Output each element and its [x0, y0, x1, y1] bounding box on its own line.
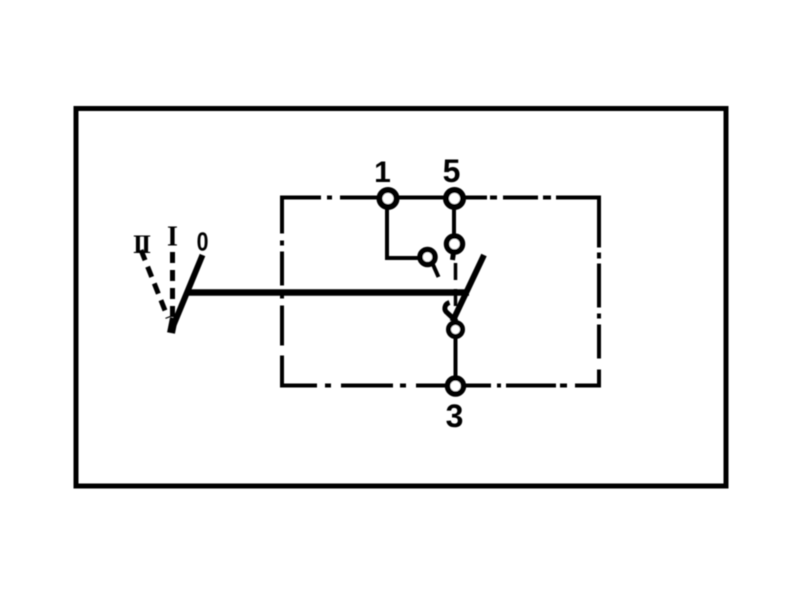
svg-text:I: I — [167, 222, 178, 253]
lever position I (dashed vertical) — [170, 252, 175, 321]
switch blade (solid, position 0) — [445, 255, 484, 322]
alternate blade position (dashed line from contact B to pivot) — [454, 263, 458, 323]
lever position II (dashed diagonal) — [141, 250, 168, 318]
pivot contact circle — [449, 323, 463, 337]
svg-text:1: 1 — [374, 156, 391, 189]
fixed contact A (from terminal 1) — [420, 250, 439, 278]
wire from pivot to terminal 3 — [454, 337, 458, 377]
terminal 1 (circle on enclosure top edge) — [380, 190, 397, 207]
terminal 3 (circle on enclosure bottom edge) — [448, 378, 464, 394]
mechanical linkage bar — [186, 289, 469, 296]
svg-text:II: II — [133, 230, 151, 259]
svg-text:3: 3 — [446, 398, 464, 434]
wire from terminal 1 down and right to fixed contact A — [387, 208, 419, 258]
fixed contact B (from terminal 5) — [447, 236, 463, 260]
wire from terminal 5 down to fixed contact B — [452, 208, 456, 234]
svg-text:0: 0 — [197, 228, 209, 258]
enclosure boundary (dash-dot box) — [280, 196, 601, 388]
lever (solid, position 0) — [171, 255, 203, 333]
svg-text:5: 5 — [443, 153, 461, 189]
terminal 5 (circle on enclosure top edge) — [446, 190, 463, 207]
